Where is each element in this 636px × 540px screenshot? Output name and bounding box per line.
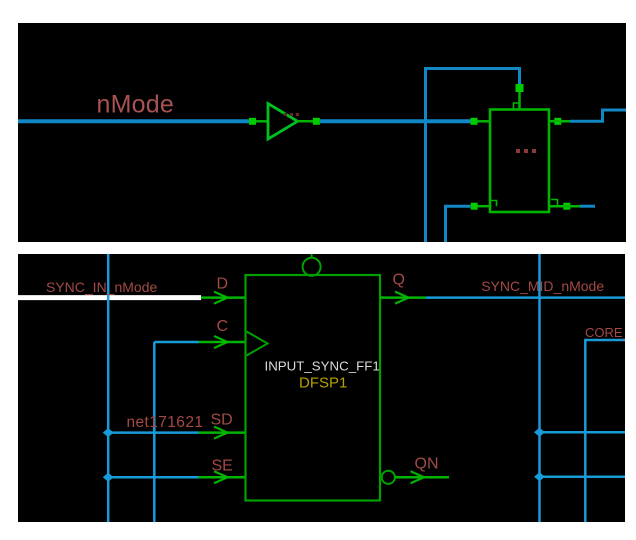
wire net vertical A: [538, 254, 541, 522]
pin QN arrow: [411, 471, 425, 483]
bottom schematic panel (detailed view): [18, 254, 625, 522]
wire CORE corner: [585, 340, 625, 522]
buffer U_top triangle: [268, 104, 298, 140]
wire top pin stub: [518, 92, 521, 110]
top bubble circle: [303, 258, 321, 276]
svg-text:SE: SE: [212, 458, 233, 475]
top bubble stub: [311, 254, 313, 259]
wire bottom-left down: [446, 206, 471, 242]
junction diamond SD-left: [103, 428, 114, 437]
svg-text:nMode: nMode: [97, 91, 174, 119]
wire SYNC_IN_nMode (selected, white): [18, 295, 201, 300]
pin marker bottom-left: [490, 201, 497, 207]
wire bottom-right stub out: [580, 205, 595, 208]
svg-text:SD: SD: [211, 412, 233, 429]
node block right pin dot: [554, 118, 561, 125]
pin SD wire: [199, 431, 246, 434]
pin C wire: [199, 341, 246, 344]
node block top pin dot: [516, 84, 524, 92]
wire feedback down to top pin: [518, 67, 521, 85]
pin Q arrow: [395, 292, 409, 304]
wire C horizontal: [154, 341, 198, 344]
wire SD horizontal: [108, 431, 199, 434]
pin SE arrow: [214, 471, 228, 483]
svg-text:SYNC_MID_nMode: SYNC_MID_nMode: [481, 278, 604, 294]
wire SE right horizontal: [540, 476, 626, 479]
wire net vertical 2: [153, 342, 156, 522]
svg-text:SYNC_IN_nMode: SYNC_IN_nMode: [46, 279, 157, 295]
pin QN bubble: [382, 471, 395, 484]
junction diamond SD-right: [534, 428, 545, 437]
node block bottom-left pin dot: [471, 203, 478, 210]
svg-text:CORE_C: CORE_C: [585, 325, 625, 340]
node block bottom-right pin dot: [563, 203, 570, 210]
pin SE wire: [199, 476, 246, 479]
pin Q wire: [380, 296, 426, 299]
svg-text:INPUT_SYNC_FF1: INPUT_SYNC_FF1: [265, 359, 380, 374]
wire right pin to edge: [570, 110, 626, 121]
svg-text:net171621: net171621: [127, 414, 204, 431]
wire right pin stub: [549, 120, 570, 123]
wire bottom-left pin stub: [478, 205, 491, 208]
pin marker bottom-right: [551, 200, 558, 207]
junction diamond SE-right: [534, 472, 545, 481]
node buffer output pin dot: [313, 118, 320, 125]
pin D wire: [201, 296, 246, 299]
pin QN wire: [395, 476, 449, 479]
wire net vertical 1: [107, 254, 110, 522]
wire to block left pin: [320, 119, 471, 123]
pin C arrow: [214, 336, 228, 348]
top schematic panel (zoomed-out view): [18, 23, 626, 242]
pin D arrow: [214, 292, 228, 304]
buffer tiny label: [284, 113, 287, 116]
svg-text:DFSP1: DFSP1: [299, 375, 347, 392]
svg-text:C: C: [217, 318, 229, 335]
wire nMode main horizontal: [18, 119, 252, 123]
block label dots: [516, 149, 520, 153]
pin marker top: [514, 103, 520, 110]
wire SD right horizontal: [540, 431, 626, 434]
wire buffer output: [298, 120, 315, 123]
wire feedback top horizontal: [424, 67, 520, 70]
wire left pin stub: [478, 120, 491, 123]
pin SD arrow: [214, 427, 228, 439]
node block left pin dot: [471, 118, 478, 125]
junction diamond SE-left: [103, 473, 114, 482]
svg-text:QN: QN: [415, 456, 439, 473]
block U_core rectangle: [490, 110, 549, 213]
svg-text:D: D: [217, 276, 229, 293]
wire bottom-right pin stub: [549, 205, 580, 208]
clock triangle: [247, 332, 268, 356]
node buffer input pin dot: [249, 118, 256, 125]
wire SYNC_MID_nMode: [426, 296, 625, 299]
flip-flop INPUT_SYNC_FF1 body: [246, 275, 381, 501]
wire pin to buffer: [256, 120, 268, 123]
svg-text:Q: Q: [393, 272, 405, 289]
wire SE horizontal: [108, 476, 199, 479]
wire vertical feedback left: [424, 69, 427, 243]
